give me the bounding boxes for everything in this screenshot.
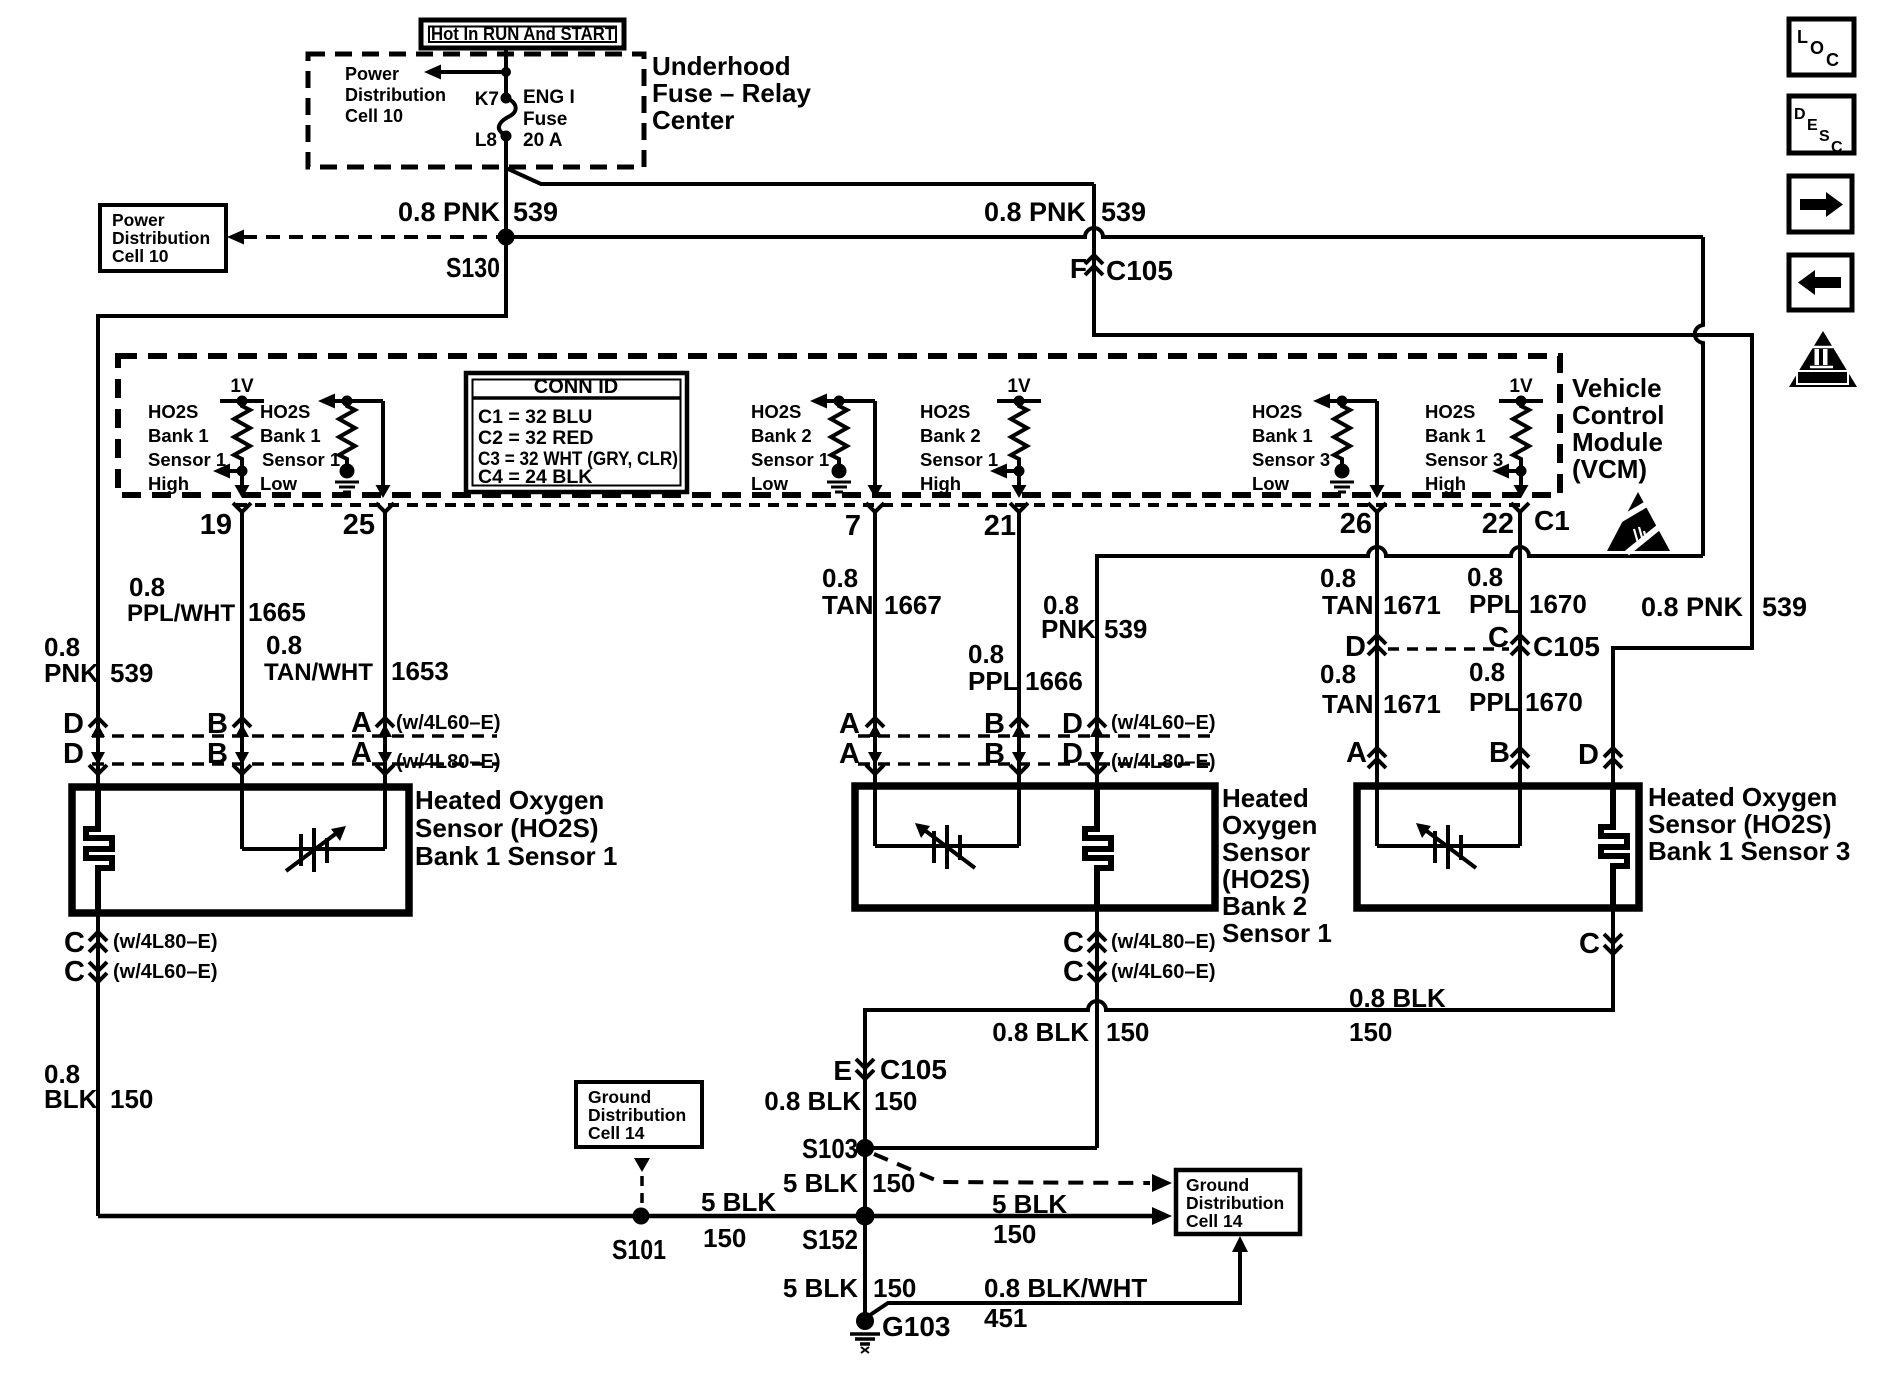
svg-text:26: 26: [1340, 508, 1372, 540]
svg-text:5 BLK: 5 BLK: [992, 1189, 1067, 1219]
label 0.8 PPL 1670 (lower): [1469, 657, 1583, 717]
svg-text:S130: S130: [446, 252, 500, 283]
svg-text:S103: S103: [802, 1133, 858, 1164]
svg-text:1653: 1653: [391, 656, 449, 686]
svg-text:PNK: PNK: [44, 658, 99, 688]
svg-text:HO2S: HO2S: [148, 401, 198, 422]
connector half C (w/4L80-E) below middle box: [1063, 927, 1215, 959]
pin 21 connector: [984, 503, 1028, 542]
svg-text:Center: Center: [652, 105, 734, 135]
wire fuse to S130: [504, 136, 508, 237]
heater element (right sensor): [1601, 786, 1627, 908]
connector F C105: [1070, 253, 1173, 286]
connector C105 pin E: [833, 1054, 947, 1086]
connector half C below right box: [1579, 928, 1622, 960]
svg-text:D: D: [1345, 631, 1366, 663]
svg-text:1V: 1V: [1509, 376, 1533, 397]
svg-text:539: 539: [513, 197, 558, 227]
label Power Distribution Cell 10 (inside fuse box): [345, 64, 446, 126]
wire PNK 539 right branch down-left to middle sensor (hops over wires): [1695, 237, 1703, 556]
svg-text:5 BLK: 5 BLK: [783, 1168, 858, 1198]
label 0.8 PPL 1666: [968, 639, 1083, 696]
svg-text:C: C: [1826, 50, 1839, 70]
svg-text:Low: Low: [1252, 473, 1290, 494]
svg-text:Bank 1: Bank 1: [260, 425, 321, 446]
svg-text:A: A: [1346, 737, 1367, 769]
label Heated Oxygen Sensor (HO2S) Bank 1 Sensor 1: [415, 785, 617, 871]
svg-text:C: C: [1063, 956, 1084, 988]
svg-text:5 BLK: 5 BLK: [701, 1187, 776, 1217]
svg-text:High: High: [1425, 473, 1466, 494]
svg-text:A: A: [839, 738, 860, 770]
label 0.8 TAN/WHT 1653: [264, 630, 449, 686]
svg-text:HO2S: HO2S: [1425, 401, 1475, 422]
dashed wire S130 to Power Distribution box: [227, 230, 502, 245]
svg-text:S: S: [1819, 128, 1830, 145]
pin 7 connector: [845, 503, 884, 542]
svg-text:O: O: [1810, 38, 1824, 58]
wire S152 down to G103: [863, 1216, 867, 1321]
HO2S Bank 1 Sensor 3 box: [1357, 786, 1639, 908]
wire pin21 PPL 1666: [1017, 512, 1021, 786]
svg-text:5 BLK: 5 BLK: [783, 1273, 858, 1303]
svg-text:Cell 10: Cell 10: [112, 246, 169, 266]
svg-text:PNK: PNK: [1041, 614, 1096, 644]
label HO2S Bank 2 Sensor 1 High: [920, 401, 998, 494]
icon DESC: [1789, 96, 1854, 156]
svg-text:G103: G103: [882, 1311, 951, 1342]
svg-text:0.8 PNK: 0.8 PNK: [398, 197, 501, 227]
svg-text:150: 150: [873, 1273, 916, 1303]
svg-text:B: B: [984, 708, 1005, 740]
svg-text:BLK: BLK: [44, 1084, 98, 1114]
svg-text:(w/4L80–E): (w/4L80–E): [1111, 931, 1215, 953]
svg-text:Control: Control: [1572, 400, 1664, 430]
svg-text:Fuse: Fuse: [523, 109, 567, 130]
dashed wire S103 to Ground Distribution Cell 14: [874, 1154, 1172, 1192]
svg-text:K7: K7: [475, 89, 499, 110]
svg-text:Sensor: Sensor: [1222, 837, 1310, 867]
ground bus wire to S152 and Ground Distribution: [98, 1214, 1152, 1219]
label 0.8 BLK 150 (middle): [992, 1017, 1149, 1047]
pin 19 connector: [200, 503, 251, 541]
svg-text:C: C: [1831, 139, 1843, 156]
svg-text:150: 150: [1349, 1017, 1392, 1047]
wire 0.8 BLK/WHT 451 from G103 to Ground Distribution: [870, 1236, 1248, 1315]
svg-text:Sensor 1: Sensor 1: [920, 449, 998, 470]
svg-text:0.8 PNK: 0.8 PNK: [1641, 592, 1744, 622]
svg-text:C: C: [1063, 927, 1084, 959]
label Underhood Fuse-Relay Center: [652, 51, 812, 135]
CONN ID table: [466, 373, 687, 492]
wire from Hot box down to fuse: [504, 48, 508, 97]
svg-text:Oxygen: Oxygen: [1222, 810, 1317, 840]
label 0.8 PNK 539 (left bus): [44, 632, 153, 688]
svg-text:L8: L8: [475, 130, 497, 151]
svg-text:C105: C105: [880, 1054, 947, 1085]
svg-text:Sensor 1: Sensor 1: [751, 449, 829, 470]
svg-text:HO2S: HO2S: [920, 401, 970, 422]
svg-text:1670: 1670: [1529, 589, 1587, 619]
svg-text:150: 150: [110, 1084, 153, 1114]
connector half C (w/4L60-E) below left box: [64, 956, 217, 988]
svg-text:TAN: TAN: [822, 590, 874, 620]
ground G103: [850, 1311, 951, 1353]
svg-text:Sensor (HO2S): Sensor (HO2S): [1648, 809, 1832, 839]
wire pin22 PPL 1670: [1518, 512, 1522, 786]
label 0.8 TAN 1671 (upper): [1320, 563, 1441, 620]
fuse ENG I 20 A (K7/L8): [475, 87, 575, 151]
svg-text:Power: Power: [345, 64, 399, 84]
svg-text:C1: C1: [1534, 505, 1570, 536]
wire S103 to S152: [863, 1148, 867, 1216]
svg-text:Sensor 3: Sensor 3: [1425, 449, 1503, 470]
label 0.8 BLK 150 (above S103): [764, 1086, 917, 1116]
in-line connector rows, left group (w/4L60-E, w/4L80-E): [92, 734, 497, 738]
label 5 BLK / 150 (S101-S152): [701, 1187, 776, 1253]
svg-text:D: D: [63, 738, 84, 770]
label 5 BLK 150 (below S152): [783, 1273, 917, 1303]
svg-text:0.8: 0.8: [1320, 659, 1356, 689]
svg-text:HO2S: HO2S: [1252, 401, 1302, 422]
svg-text:A: A: [351, 707, 372, 739]
svg-text:D: D: [1578, 739, 1599, 771]
svg-text:B: B: [1489, 737, 1510, 769]
svg-text:F: F: [1070, 253, 1087, 284]
label 5 BLK / 150 (S152 right): [992, 1189, 1067, 1249]
pin 22 connector: [1482, 503, 1529, 540]
svg-text:Heated: Heated: [1222, 783, 1309, 813]
svg-text:1671: 1671: [1383, 689, 1441, 719]
VCM pull-up resistor, HO2S Bank2 Sensor1 High (pin 21): [990, 376, 1041, 498]
VCM resistor to ground, HO2S Bank1 Sensor1 Low (pin 25): [318, 394, 391, 499]
svg-text:0.8 PNK: 0.8 PNK: [984, 197, 1087, 227]
svg-text:0.8: 0.8: [266, 630, 302, 660]
svg-text:TAN: TAN: [1322, 590, 1374, 620]
label Vehicle Control Module (VCM): [1572, 373, 1664, 484]
svg-text:Bank 2: Bank 2: [920, 425, 981, 446]
wire right sensor BLK to S103 (hops over middle BLK wire): [865, 908, 1613, 1148]
label box "Hot In RUN And START": [421, 20, 624, 48]
svg-text:Sensor (HO2S): Sensor (HO2S): [415, 813, 599, 843]
splice S103: [856, 1139, 874, 1157]
svg-text:539: 539: [1762, 592, 1807, 622]
label 5 BLK 150 (S103-S152): [783, 1168, 916, 1198]
svg-text:Hot In RUN And START: Hot In RUN And START: [431, 24, 615, 44]
svg-text:20 A: 20 A: [523, 130, 563, 151]
svg-text:Sensor 1: Sensor 1: [1222, 918, 1332, 948]
svg-text:Bank 2: Bank 2: [751, 425, 812, 446]
splice S101: [633, 1208, 650, 1225]
svg-text:1671: 1671: [1383, 590, 1441, 620]
svg-text:(w/4L60–E): (w/4L60–E): [1111, 961, 1215, 983]
pin 26 connector: [1340, 503, 1386, 540]
svg-text:Bank 1: Bank 1: [1252, 425, 1313, 446]
connector half C (w/4L80-E) below left box: [64, 927, 217, 959]
label 0.8 BLK/WHT 451: [984, 1273, 1147, 1333]
svg-text:E: E: [1807, 117, 1818, 134]
svg-text:539: 539: [110, 658, 153, 688]
svg-text:1667: 1667: [884, 590, 942, 620]
svg-text:E: E: [833, 1055, 852, 1086]
wire pin7 TAN 1667: [873, 512, 877, 786]
wire pin26 TAN 1671: [1375, 512, 1379, 786]
svg-text:Distribution: Distribution: [1186, 1193, 1284, 1213]
sensing element (middle sensor): [875, 786, 1019, 869]
svg-text:0.8: 0.8: [968, 639, 1004, 669]
svg-text:Bank 2: Bank 2: [1222, 891, 1307, 921]
svg-text:0.8: 0.8: [1467, 562, 1503, 592]
svg-text:S101: S101: [612, 1234, 666, 1265]
wire branch diagonal to PNK 539 feed: [506, 168, 1094, 184]
svg-text:TAN/WHT: TAN/WHT: [264, 659, 373, 686]
svg-text:Sensor 1: Sensor 1: [262, 449, 340, 470]
svg-text:Distribution: Distribution: [588, 1105, 686, 1125]
svg-text:Distribution: Distribution: [112, 228, 210, 248]
HO2S Bank 2 Sensor 1 box: [855, 786, 1215, 908]
label 0.8 PPL 1670 (upper): [1467, 562, 1587, 619]
svg-text:Sensor 1: Sensor 1: [148, 449, 226, 470]
svg-text:CONN ID: CONN ID: [534, 376, 618, 398]
svg-text:Sensor 3: Sensor 3: [1252, 449, 1330, 470]
svg-text:HO2S: HO2S: [260, 401, 310, 422]
icon arrow left: [1789, 255, 1852, 310]
svg-text:C105: C105: [1533, 631, 1600, 662]
svg-text:C2 = 32 RED: C2 = 32 RED: [478, 427, 593, 449]
wire below left box (BLK 150): [96, 913, 100, 1216]
svg-text:HO2S: HO2S: [751, 401, 801, 422]
svg-text:D: D: [1794, 106, 1806, 123]
svg-text:19: 19: [200, 509, 232, 541]
svg-text:21: 21: [984, 510, 1016, 542]
svg-text:Cell 10: Cell 10: [345, 106, 403, 126]
label 0.8 PPL/WHT 1665: [127, 572, 306, 627]
svg-text:Underhood: Underhood: [652, 51, 791, 81]
pin 25 connector: [343, 503, 394, 541]
svg-text:ENG I: ENG I: [523, 87, 575, 108]
svg-text:(w/4L60–E): (w/4L60–E): [1111, 712, 1215, 734]
svg-text:Vehicle: Vehicle: [1572, 373, 1662, 403]
svg-text:150: 150: [993, 1219, 1036, 1249]
label HO2S Bank 1 Sensor 1 Low: [260, 401, 340, 494]
svg-text:Bank 1: Bank 1: [1425, 425, 1486, 446]
svg-text:Heated Oxygen: Heated Oxygen: [1648, 782, 1837, 812]
svg-text:(VCM): (VCM): [1572, 454, 1647, 484]
svg-text:C4 = 24 BLK: C4 = 24 BLK: [478, 466, 592, 488]
connector halves on TAN/WHT wire (A/A): [351, 707, 394, 774]
svg-text:Bank 1 Sensor 3: Bank 1 Sensor 3: [1648, 836, 1850, 866]
svg-text:1665: 1665: [248, 597, 306, 627]
wire S130 to right (PNK 539) with hop over C105 wire: [506, 228, 1703, 237]
svg-text:C: C: [64, 956, 85, 988]
box Power Distribution Cell 10: [100, 205, 226, 271]
connector halves on PPL/WHT wire (B/B): [207, 708, 251, 774]
splice S152: [856, 1207, 875, 1226]
svg-text:D: D: [1062, 738, 1083, 770]
svg-text:Fuse – Relay: Fuse – Relay: [652, 78, 812, 108]
svg-text:C105: C105: [1106, 255, 1173, 286]
svg-text:Low: Low: [260, 473, 298, 494]
svg-text:S152: S152: [802, 1224, 858, 1255]
svg-text:High: High: [920, 473, 961, 494]
triangle + dashed drop to S101: [634, 1158, 650, 1206]
sensing element (right sensor): [1377, 786, 1520, 869]
VCM pull-up resistor, HO2S Bank1 Sensor3 High (pin 22): [1492, 376, 1543, 498]
svg-text:PPL: PPL: [968, 666, 1019, 696]
svg-text:Heated Oxygen: Heated Oxygen: [415, 785, 604, 815]
wire below middle box: [1095, 908, 1099, 1148]
wire PNK 539 via connector C105 pin F: [1094, 184, 1752, 786]
svg-text:539: 539: [1101, 197, 1146, 227]
label 0.8 TAN 1667: [822, 563, 942, 620]
VCM resistor to ground, HO2S Bank2 Sensor1 Low (pin 7): [810, 394, 883, 499]
VCM pull-up resistor, HO2S Bank1 Sensor1 High (pin 19): [213, 376, 264, 498]
connector C105 face dashes (right group): [1388, 647, 1509, 651]
heater element (middle sensor): [1085, 786, 1111, 908]
svg-text:Ground: Ground: [588, 1087, 651, 1107]
svg-text:PPL/WHT: PPL/WHT: [127, 600, 235, 627]
label 0.8 BLK / 150 (right): [1349, 983, 1446, 1047]
label 0.8 PNK 539 (top): [398, 197, 558, 227]
connector halves on PNK wire (D/D): [1062, 708, 1106, 774]
svg-text:B: B: [984, 738, 1005, 770]
label HO2S Bank 1 Sensor 3 High: [1425, 401, 1503, 494]
svg-text:539: 539: [1104, 614, 1147, 644]
svg-text:(w/4L80–E): (w/4L80–E): [396, 751, 500, 773]
svg-text:A: A: [351, 737, 372, 769]
wire pin25 TAN/WHT 1653: [383, 512, 387, 787]
svg-text:(w/4L60–E): (w/4L60–E): [113, 961, 217, 983]
svg-text:1V: 1V: [230, 376, 254, 397]
svg-text:1666: 1666: [1025, 666, 1083, 696]
svg-text:0.8 BLK: 0.8 BLK: [1349, 983, 1446, 1013]
label 0.8 BLK 150 (left bus): [44, 1059, 153, 1114]
svg-text:0.8: 0.8: [1320, 563, 1356, 593]
connector row, right group (A B D): [1346, 737, 1386, 769]
wire pin19 PPL/WHT 1665: [240, 512, 244, 787]
svg-text:451: 451: [984, 1303, 1027, 1333]
label Heated Oxygen Sensor (HO2S) Bank 2 Sensor 1: [1222, 783, 1332, 948]
svg-text:150: 150: [703, 1223, 746, 1253]
connector halves on PNK wire (D/D): [63, 708, 107, 774]
svg-text:150: 150: [874, 1086, 917, 1116]
heater element (left sensor): [86, 787, 112, 913]
ESD static sensitive symbol: [1607, 492, 1670, 553]
icon LOC: [1789, 19, 1854, 75]
wire S130 down-left to left PNK bus: [98, 237, 506, 787]
icon arrow right: [1789, 176, 1852, 232]
svg-text:(w/4L60–E): (w/4L60–E): [396, 712, 500, 734]
svg-text:25: 25: [343, 509, 375, 541]
icon OBD II triangle: [1789, 331, 1857, 387]
connector C105 pin C (right group): [1488, 622, 1600, 662]
svg-text:PPL: PPL: [1469, 589, 1520, 619]
svg-text:High: High: [148, 473, 189, 494]
svg-text:Low: Low: [751, 473, 789, 494]
svg-text:0.8 BLK: 0.8 BLK: [992, 1017, 1089, 1047]
splice S130: [498, 229, 515, 246]
svg-text:(w/4L80–E): (w/4L80–E): [113, 931, 217, 953]
label HO2S Bank 2 Sensor 1 Low: [751, 401, 829, 494]
svg-text:1670: 1670: [1525, 687, 1583, 717]
label HO2S Bank 1 Sensor 1 High: [148, 401, 226, 494]
box Ground Distribution Cell 14 (left): [576, 1082, 702, 1147]
svg-text:TAN: TAN: [1322, 689, 1374, 719]
label 0.8 TAN 1671 (lower): [1320, 659, 1441, 719]
svg-text:22: 22: [1482, 508, 1514, 540]
sensing element (left sensor): [242, 787, 385, 872]
svg-text:B: B: [207, 738, 228, 770]
svg-text:0.8 BLK: 0.8 BLK: [764, 1086, 861, 1116]
svg-text:C: C: [1579, 928, 1600, 960]
svg-text:0.8: 0.8: [129, 572, 165, 602]
box Ground Distribution Cell 14 (right): [1176, 1170, 1300, 1234]
svg-text:Ground: Ground: [1186, 1175, 1249, 1195]
svg-text:Cell 14: Cell 14: [1186, 1211, 1243, 1231]
svg-text:7: 7: [845, 510, 861, 542]
svg-text:Cell 14: Cell 14: [588, 1123, 645, 1143]
in-line connector rows, middle group: [858, 734, 1215, 738]
svg-text:B: B: [207, 708, 228, 740]
svg-text:Distribution: Distribution: [345, 85, 446, 105]
svg-text:PPL: PPL: [1469, 687, 1520, 717]
svg-text:Bank 1: Bank 1: [148, 425, 209, 446]
svg-text:(w/4L80–E): (w/4L80–E): [1111, 751, 1215, 773]
svg-text:Power: Power: [112, 210, 165, 230]
label Heated Oxygen Sensor (HO2S) Bank 1 Sensor 3: [1648, 782, 1850, 866]
label HO2S Bank 1 Sensor 3 Low: [1252, 401, 1330, 494]
HO2S Bank 1 Sensor 1 box: [72, 787, 409, 913]
VCM dashed box: [118, 356, 1560, 495]
connector halves on PPL wire (B/B): [984, 708, 1028, 774]
svg-text:150: 150: [872, 1168, 915, 1198]
svg-text:Bank 1 Sensor 1: Bank 1 Sensor 1: [415, 841, 617, 871]
svg-text:150: 150: [1106, 1017, 1149, 1047]
label 0.8 PNK 539 (middle): [1041, 590, 1147, 644]
underhood fuse-relay center dashed box: [308, 54, 644, 167]
connector C105 pin D (right group): [1345, 631, 1386, 663]
svg-text:0.8: 0.8: [822, 563, 858, 593]
wire middle BLK into S103: [865, 1146, 1097, 1150]
svg-text:A: A: [839, 708, 860, 740]
svg-text:D: D: [1062, 708, 1083, 740]
svg-text:0.8: 0.8: [1469, 657, 1505, 687]
node + arrow to Power Distribution Cell 10: [424, 65, 511, 80]
connector C1 face (dashed line): [236, 503, 1528, 507]
label 0.8 PNK 539 (right): [1641, 592, 1807, 622]
svg-text:L: L: [1797, 27, 1808, 47]
connector halves on TAN wire (A/A): [839, 708, 884, 774]
svg-text:OBD II: OBD II: [1806, 373, 1838, 385]
svg-text:C1 = 32 BLU: C1 = 32 BLU: [478, 406, 592, 428]
svg-text:C: C: [64, 927, 85, 959]
svg-text:(HO2S): (HO2S): [1222, 864, 1310, 894]
svg-text:D: D: [63, 708, 84, 740]
svg-text:Module: Module: [1572, 427, 1663, 457]
label 0.8 PNK 539 (top right): [984, 197, 1146, 227]
svg-text:0.8 BLK/WHT: 0.8 BLK/WHT: [984, 1273, 1147, 1303]
svg-text:1V: 1V: [1007, 376, 1031, 397]
VCM resistor to ground, HO2S Bank1 Sensor3 Low (pin 26): [1313, 394, 1385, 499]
connector half C (w/4L60-E) below middle box: [1063, 956, 1215, 988]
